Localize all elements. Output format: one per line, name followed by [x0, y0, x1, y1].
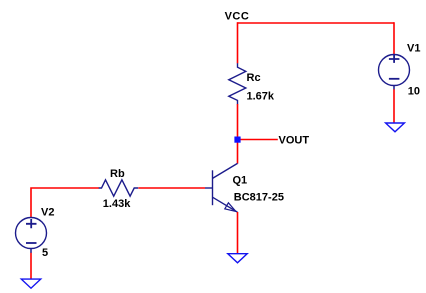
source V2 circle — [16, 218, 47, 249]
wire Q1 base to Rb — [138, 187, 205, 189]
node VOUT junction square — [234, 137, 240, 143]
wire Rc bottom to VOUT node — [237, 104, 239, 140]
wire VCC corner down to Rc top — [237, 22, 239, 63]
source V1 minus sign — [389, 78, 400, 80]
svg-text:Q1: Q1 — [233, 175, 248, 187]
ground under V1 — [386, 123, 405, 132]
svg-text:BC817-25: BC817-25 — [234, 191, 284, 203]
wire node down to Q1 collector — [237, 140, 239, 164]
resistor Rb zigzag — [99, 180, 139, 196]
svg-text:Rc: Rc — [247, 72, 261, 84]
source V2 plus sign — [26, 219, 37, 228]
svg-text:1.43k: 1.43k — [103, 198, 131, 210]
svg-text:VCC: VCC — [225, 11, 250, 23]
transistor Q1 body — [205, 163, 238, 212]
svg-text:1.67k: 1.67k — [247, 91, 275, 103]
wire V1 to ground — [393, 89, 395, 123]
svg-text:10: 10 — [408, 86, 420, 98]
svg-text:VOUT: VOUT — [279, 134, 310, 146]
svg-text:V1: V1 — [407, 43, 420, 55]
ground under V2 — [21, 279, 40, 288]
wire V1 top lead — [393, 22, 395, 54]
resistor Rc zigzag — [229, 63, 246, 104]
wire node to VOUT label — [240, 139, 278, 141]
source V1 circle — [379, 55, 410, 86]
source V1 bottom lead stub — [393, 85, 395, 89]
ground under Q1 — [228, 254, 247, 263]
wire VCC rail top horizontal — [238, 22, 395, 24]
wire Rb to V2 corner — [31, 188, 99, 217]
wire Q1 emitter to ground — [237, 212, 239, 254]
svg-text:Rb: Rb — [110, 168, 125, 180]
source V2 minus sign — [26, 242, 37, 244]
svg-text:5: 5 — [42, 247, 48, 259]
source V2 bottom lead stub — [30, 248, 32, 253]
svg-text:V2: V2 — [41, 206, 54, 218]
source V1 plus sign — [389, 55, 400, 63]
wire V2 to ground — [30, 253, 32, 279]
